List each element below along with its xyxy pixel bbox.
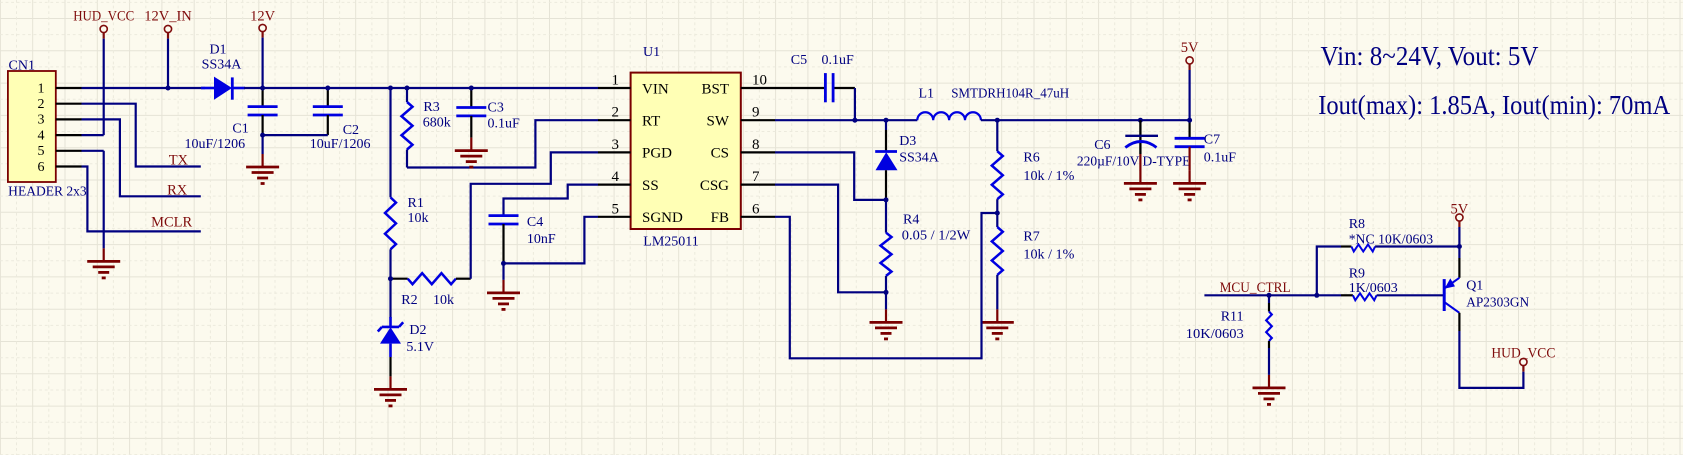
- junction: [325, 86, 330, 91]
- svg-text:Vin: 8~24V, Vout: 5V: Vin: 8~24V, Vout: 5V: [1321, 41, 1539, 71]
- svg-text:10: 10: [752, 73, 767, 89]
- svg-text:CS: CS: [711, 146, 729, 162]
- svg-text:6: 6: [752, 201, 760, 217]
- svg-text:12V: 12V: [250, 9, 276, 25]
- svg-text:R6: R6: [1023, 151, 1039, 166]
- svg-text:RT: RT: [642, 114, 660, 130]
- power port 12V_IN: [144, 9, 192, 33]
- capacitor C7: [1175, 120, 1237, 170]
- svg-text:10k: 10k: [433, 293, 454, 308]
- svg-text:C3: C3: [488, 101, 504, 116]
- junction: [260, 86, 265, 91]
- svg-text:R1: R1: [408, 196, 424, 211]
- svg-text:R4: R4: [903, 213, 919, 228]
- wire: [389, 279, 391, 318]
- svg-text:C2: C2: [343, 123, 359, 138]
- svg-text:10uF/1206: 10uF/1206: [310, 137, 371, 152]
- wire: [504, 185, 599, 216]
- svg-text:Q1: Q1: [1466, 279, 1483, 294]
- junction: [995, 211, 1000, 216]
- wire: [885, 292, 887, 309]
- net label MCU_CTRL: [1220, 280, 1291, 296]
- wire: [775, 87, 824, 89]
- wire: [775, 185, 886, 293]
- svg-text:680k: 680k: [423, 116, 451, 131]
- power port HUD_VCC: [1491, 346, 1555, 366]
- wire: [981, 119, 1190, 121]
- svg-text:CN1: CN1: [9, 59, 35, 74]
- svg-text:*NC 10K/0603: *NC 10K/0603: [1349, 233, 1433, 248]
- svg-text:SMTDRH104R_47uH: SMTDRH104R_47uH: [951, 87, 1069, 102]
- svg-text:U1: U1: [643, 45, 660, 60]
- svg-text:0.1uF: 0.1uF: [1204, 151, 1237, 166]
- junction: [884, 197, 889, 202]
- svg-text:AP2303GN: AP2303GN: [1466, 296, 1529, 311]
- capacitor C2: [310, 88, 371, 152]
- svg-text:R3: R3: [423, 100, 439, 115]
- svg-text:C5: C5: [791, 53, 807, 68]
- power port 12V: [250, 9, 276, 32]
- resistor R2: [391, 273, 471, 308]
- junction: [469, 86, 474, 91]
- wire: [835, 88, 855, 120]
- svg-text:HUD_VCC: HUD_VCC: [1491, 346, 1555, 362]
- svg-text:MCLR: MCLR: [151, 214, 192, 230]
- svg-text:10nF: 10nF: [527, 232, 556, 247]
- wire: [82, 119, 201, 196]
- inductor L1: [917, 87, 1069, 121]
- ground: [1124, 170, 1157, 200]
- ground: [981, 309, 1014, 339]
- resistor R3: [402, 88, 451, 168]
- svg-text:SS: SS: [642, 178, 659, 194]
- wire: [1459, 313, 1523, 388]
- wire: [1204, 294, 1341, 296]
- wire: [407, 120, 598, 167]
- power port 5V: [1451, 202, 1469, 222]
- wire: [82, 151, 104, 249]
- svg-text:RX: RX: [167, 182, 188, 198]
- svg-text:D3: D3: [899, 134, 916, 149]
- svg-text:C1: C1: [232, 122, 248, 137]
- wire: [504, 217, 599, 264]
- wire: [262, 135, 264, 154]
- svg-text:MCU_CTRL: MCU_CTRL: [1220, 280, 1291, 296]
- diode D3: [875, 120, 940, 200]
- junction: [1187, 118, 1192, 123]
- resistor R4: [881, 200, 972, 292]
- resistor R1: [385, 196, 429, 249]
- svg-text:1: 1: [38, 81, 45, 96]
- svg-text:SS34A: SS34A: [202, 58, 243, 73]
- svg-text:BST: BST: [701, 81, 729, 97]
- svg-text:10k / 1%: 10k / 1%: [1023, 248, 1074, 263]
- svg-text:0.1uF: 0.1uF: [822, 53, 855, 68]
- svg-text:R7: R7: [1023, 229, 1039, 244]
- svg-text:4: 4: [38, 128, 45, 143]
- svg-text:1K/0603: 1K/0603: [1349, 281, 1398, 296]
- capacitor C5: [791, 53, 854, 102]
- svg-text:5V: 5V: [1181, 40, 1199, 56]
- svg-text:LM25011: LM25011: [643, 235, 698, 250]
- resistor R8: [1341, 217, 1459, 252]
- junction: [884, 118, 889, 123]
- junction: [260, 133, 265, 138]
- svg-text:SS34A: SS34A: [899, 151, 940, 166]
- svg-text:7: 7: [752, 169, 760, 185]
- wire: [1188, 64, 1190, 120]
- capacitor C4: [489, 215, 556, 263]
- svg-text:VIN: VIN: [642, 81, 669, 97]
- svg-text:C4: C4: [527, 215, 543, 230]
- svg-text:C7: C7: [1204, 133, 1220, 148]
- junction: [1138, 118, 1143, 123]
- wire: [389, 88, 391, 197]
- junction: [1457, 244, 1462, 249]
- svg-text:R9: R9: [1349, 267, 1365, 282]
- svg-text:3: 3: [612, 137, 620, 153]
- svg-text:5V: 5V: [1451, 202, 1469, 218]
- transistor Q1: [1444, 278, 1529, 313]
- wire: [775, 119, 917, 121]
- capacitor C6: [1077, 120, 1191, 170]
- net label TX: [169, 153, 189, 169]
- wire: [167, 33, 169, 88]
- wire: [389, 249, 391, 278]
- capacitor C1: [185, 88, 278, 152]
- power port 5V: [1181, 40, 1199, 64]
- wire: [82, 134, 104, 136]
- svg-text:1: 1: [612, 73, 620, 89]
- zener diode D2: [378, 317, 434, 357]
- svg-text:SW: SW: [707, 114, 730, 130]
- wire: [82, 167, 201, 232]
- net label RX: [167, 182, 188, 198]
- svg-text:C6: C6: [1094, 138, 1110, 153]
- svg-text:R2: R2: [401, 293, 417, 308]
- svg-text:PGD: PGD: [642, 146, 672, 162]
- svg-text:R11: R11: [1221, 310, 1244, 325]
- svg-text:0.1uF: 0.1uF: [488, 117, 521, 132]
- resistor R11: [1186, 295, 1272, 375]
- ground: [870, 309, 903, 339]
- svg-text:4: 4: [612, 169, 620, 185]
- junction: [388, 86, 393, 91]
- ground: [1173, 170, 1206, 200]
- wire: [775, 213, 997, 358]
- resistor R6: [992, 120, 1075, 213]
- svg-text:6: 6: [38, 160, 45, 175]
- svg-text:2: 2: [38, 97, 45, 112]
- wire: [263, 134, 328, 136]
- svg-text:D2: D2: [409, 323, 426, 338]
- wire: [502, 263, 504, 280]
- power port HUD_VCC: [73, 9, 134, 33]
- wire: [389, 357, 391, 376]
- connector CN1: [8, 59, 87, 199]
- svg-text:D1: D1: [209, 43, 226, 58]
- svg-text:FB: FB: [711, 210, 729, 226]
- resistor R9: [1341, 267, 1444, 301]
- junction: [501, 261, 506, 266]
- svg-text:3: 3: [38, 113, 45, 128]
- wire: [1317, 247, 1341, 296]
- svg-text:0.05 / 1/2W: 0.05 / 1/2W: [902, 229, 971, 244]
- wire: [82, 87, 206, 89]
- svg-text:10uF/1206: 10uF/1206: [185, 137, 246, 152]
- svg-text:10k / 1%: 10k / 1%: [1023, 169, 1074, 184]
- svg-text:L1: L1: [919, 87, 935, 102]
- svg-text:HUD_VCC: HUD_VCC: [73, 9, 134, 25]
- svg-text:12V_IN: 12V_IN: [144, 9, 192, 25]
- wire: [1458, 221, 1460, 246]
- junction: [1314, 293, 1319, 298]
- svg-text:5: 5: [612, 201, 620, 217]
- text note: [1318, 41, 1670, 120]
- svg-text:10k: 10k: [408, 211, 429, 226]
- ground: [1253, 375, 1286, 405]
- resistor R7: [992, 213, 1075, 309]
- net label MCLR: [151, 214, 192, 230]
- ground: [374, 376, 407, 406]
- ground: [87, 248, 120, 278]
- svg-text:SGND: SGND: [642, 210, 683, 226]
- ground: [246, 154, 279, 184]
- junction: [884, 290, 889, 295]
- junction: [1267, 293, 1272, 298]
- svg-text:8: 8: [752, 137, 760, 153]
- svg-text:2: 2: [612, 105, 620, 121]
- svg-text:5.1V: 5.1V: [406, 340, 434, 355]
- op-amp U1 LM25011: [598, 45, 775, 250]
- wire: [775, 152, 886, 200]
- junction: [388, 276, 393, 281]
- junction: [852, 118, 857, 123]
- capacitor C3: [456, 88, 520, 138]
- wire: [1458, 247, 1460, 278]
- svg-text:9: 9: [752, 105, 760, 121]
- svg-text:CSG: CSG: [700, 178, 729, 194]
- wire: [103, 33, 105, 136]
- svg-text:HEADER 2x3: HEADER 2x3: [8, 183, 87, 198]
- svg-text:5: 5: [38, 144, 45, 159]
- wire: [82, 104, 201, 167]
- diode D1: [201, 43, 245, 100]
- junction: [405, 86, 410, 91]
- svg-text:10K/0603: 10K/0603: [1186, 327, 1244, 342]
- svg-text:TX: TX: [169, 153, 189, 169]
- junction: [995, 118, 1000, 123]
- svg-text:220µF/10V D-TYPE: 220µF/10V D-TYPE: [1077, 155, 1191, 170]
- svg-text:Iout(max): 1.85A, Iout(min): 7: Iout(max): 1.85A, Iout(min): 70mA: [1318, 90, 1670, 120]
- wire: [471, 152, 598, 278]
- ground: [455, 138, 488, 168]
- junction: [166, 86, 171, 91]
- wire: [262, 32, 264, 88]
- wire: [244, 87, 598, 89]
- ground: [487, 280, 520, 310]
- svg-text:R8: R8: [1349, 217, 1365, 232]
